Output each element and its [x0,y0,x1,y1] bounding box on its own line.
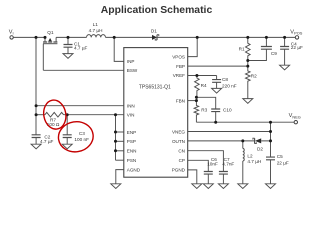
svg-text:R1: R1 [239,47,245,52]
wire INN row [36,105,124,107]
capacitor C2 [31,135,41,149]
svg-text:BSW: BSW [127,68,138,73]
pin labels [127,54,186,172]
wire Vi node down to INN/VIN/C2 [35,37,37,134]
wire OUTN row [188,140,271,142]
node VNEG terminal [294,121,297,124]
ground R2 [243,99,253,104]
wire L1 to D1 anode [106,36,153,38]
svg-text:NEG: NEG [292,114,300,119]
svg-text:L2: L2 [247,153,253,158]
svg-text:CN: CN [178,149,185,154]
svg-text:PSN: PSN [127,158,136,163]
svg-text:D2: D2 [257,146,263,151]
diode D2 (schottky) [253,138,261,143]
svg-text:INP: INP [127,59,135,64]
IC U1 TPS65131-Q1 box [124,48,188,178]
svg-text:VIN: VIN [127,113,135,118]
wire VPOS pin riser [188,37,198,56]
wire PSN stub [116,159,124,161]
wire CN row [188,151,224,172]
svg-text:TPS65131-Q1: TPS65131-Q1 [139,85,171,91]
capacitor C7 [218,172,228,189]
svg-text:INN: INN [127,104,135,109]
wire C10 branch [196,97,215,109]
capacitor C4 [280,37,290,70]
svg-text:ENN: ENN [127,149,137,154]
wire CP row [188,160,209,171]
svg-text:C9: C9 [271,51,277,56]
resistor R3 [194,101,199,123]
wire VNEG pin row [188,131,271,133]
wire INP drop [114,37,124,61]
svg-text:PGND: PGND [172,168,186,173]
svg-text:ENP: ENP [127,130,136,135]
svg-text:4.7nF: 4.7nF [222,162,234,167]
svg-text:4.7 µH: 4.7 µH [247,159,261,164]
svg-text:4.7 µH: 4.7 µH [89,28,103,33]
svg-text:22 µF: 22 µF [291,45,303,50]
node Vi terminal [10,36,13,39]
wire AGND [116,170,124,184]
svg-text:R2: R2 [251,73,257,78]
wire EN bus [115,115,117,161]
svg-text:PSP: PSP [127,139,136,144]
svg-text:VREF: VREF [173,73,185,78]
wire D1 cathode to VPOS terminal [157,36,295,38]
wire PGND stub [188,170,197,184]
wire ENN stub [116,150,124,152]
capacitor C10 [211,109,220,122]
highlight ellipse around R7 [41,98,95,154]
wire VIN row left of R7 [36,114,45,116]
wire FBP row [188,65,248,67]
capacitor C6 [203,172,213,189]
svg-text:22 µF: 22 µF [277,160,289,165]
svg-text:220 nF: 220 nF [222,84,237,89]
wire ENP stub [116,131,124,133]
svg-text:4.7 µF: 4.7 µF [40,139,54,144]
wire VREF row [188,75,217,77]
ground AGND [111,184,121,189]
svg-text:Application Schematic: Application Schematic [101,5,213,16]
svg-text:R3: R3 [201,108,207,113]
svg-text:OUTN: OUTN [172,139,185,144]
svg-text:L1: L1 [93,22,99,27]
svg-text:C10: C10 [223,108,232,113]
svg-text:10nF: 10nF [207,162,218,167]
highlight ellipse around C3 [56,119,95,154]
node VPOS terminal [295,36,298,39]
capacitor C9 [248,37,272,60]
svg-text:FBN: FBN [176,98,185,103]
wire Q1 gate to BSW pin [43,69,124,71]
svg-text:i: i [13,31,14,36]
svg-text:AGND: AGND [127,167,141,172]
capacitor C3 [62,115,72,149]
inductor L2 [243,141,244,184]
wire Q1 drain to L1 [56,36,86,38]
svg-text:Q1: Q1 [47,30,54,35]
transistor Q1 [43,37,57,70]
diode D1 (schottky) [152,35,159,40]
capacitor C5 [266,157,276,188]
resistor R7 [45,112,64,117]
svg-text:C5: C5 [277,154,283,159]
svg-text:4.7 µF: 4.7 µF [74,46,88,51]
resistor R1 [246,37,251,66]
svg-text:VPOS: VPOS [172,54,185,59]
svg-text:C3: C3 [79,131,85,136]
inductor L1 [87,35,106,38]
resistor R4 [195,76,200,101]
svg-text:CP: CP [179,158,185,163]
svg-text:POS: POS [294,31,303,36]
wire FBN stub [188,100,197,102]
svg-text:100 nF: 100 nF [74,137,89,142]
ground PGND [192,184,202,189]
svg-text:FBP: FBP [176,64,185,69]
wire Vi to Q1 source [13,36,45,38]
svg-text:D1: D1 [151,28,157,33]
wire VNEG vertical [270,122,272,157]
svg-text:R4: R4 [201,83,207,88]
resistor R2 [246,66,251,99]
svg-text:C8: C8 [222,77,228,82]
ground L2 [238,184,248,189]
wire VNEG rail to terminal [196,121,294,123]
capacitor C8 [212,76,222,94]
capacitor C1 [63,37,73,58]
wire PSP stub [116,140,124,142]
svg-text:VNEG: VNEG [172,129,185,134]
wire R7 to VIN pin [64,114,124,116]
